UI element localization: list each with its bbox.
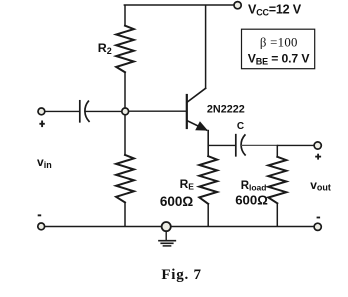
terminal input minus: [38, 223, 45, 230]
wire C1 to base node: [86, 110, 122, 112]
wire top VCC rail: [124, 4, 234, 6]
box parameters beta and VBE: [242, 29, 315, 68]
svg-text:vin: vin: [37, 155, 52, 170]
capacitor C output coupling: [236, 135, 245, 156]
terminal output minus: [314, 223, 321, 230]
svg-text:β =100: β =100: [260, 36, 298, 50]
ground: [159, 222, 175, 246]
resistor R1 lower bias: [116, 115, 134, 226]
terminal VCC: [234, 2, 241, 9]
svg-text:600Ω: 600Ω: [160, 194, 194, 209]
transistor Q1 2N2222: [187, 88, 208, 130]
wire bottom rail: [45, 226, 314, 228]
svg-text:600Ω: 600Ω: [235, 193, 268, 208]
node base junction: [122, 108, 129, 115]
terminal input plus: [38, 108, 45, 115]
wire C to output terminal: [242, 144, 278, 146]
wire input terminal to C1: [45, 110, 79, 112]
resistor RE: [199, 156, 217, 226]
wire emitter down: [207, 131, 209, 157]
label plus output: [315, 154, 321, 160]
svg-text:RE: RE: [180, 177, 195, 192]
svg-text:2N2222: 2N2222: [207, 104, 245, 116]
svg-text:Fig. 7: Fig. 7: [161, 267, 201, 283]
svg-text:R2: R2: [98, 41, 112, 56]
label minus input: [38, 214, 42, 216]
svg-text:Rload: Rload: [241, 180, 267, 193]
wire emitter node horizontal: [208, 144, 235, 146]
svg-text:VCC=12 V: VCC=12 V: [248, 2, 302, 17]
svg-text:C: C: [237, 121, 244, 132]
resistor R2: [116, 6, 134, 108]
label minus output: [317, 217, 321, 219]
resistor Rload: [268, 146, 286, 226]
wire collector to VCC rail: [205, 6, 207, 89]
wire base node to Q1 base: [129, 110, 187, 112]
label plus input: [39, 121, 44, 128]
svg-text:vout: vout: [310, 178, 331, 193]
terminal output plus: [314, 142, 321, 149]
capacitor C1 input coupling: [80, 101, 89, 122]
